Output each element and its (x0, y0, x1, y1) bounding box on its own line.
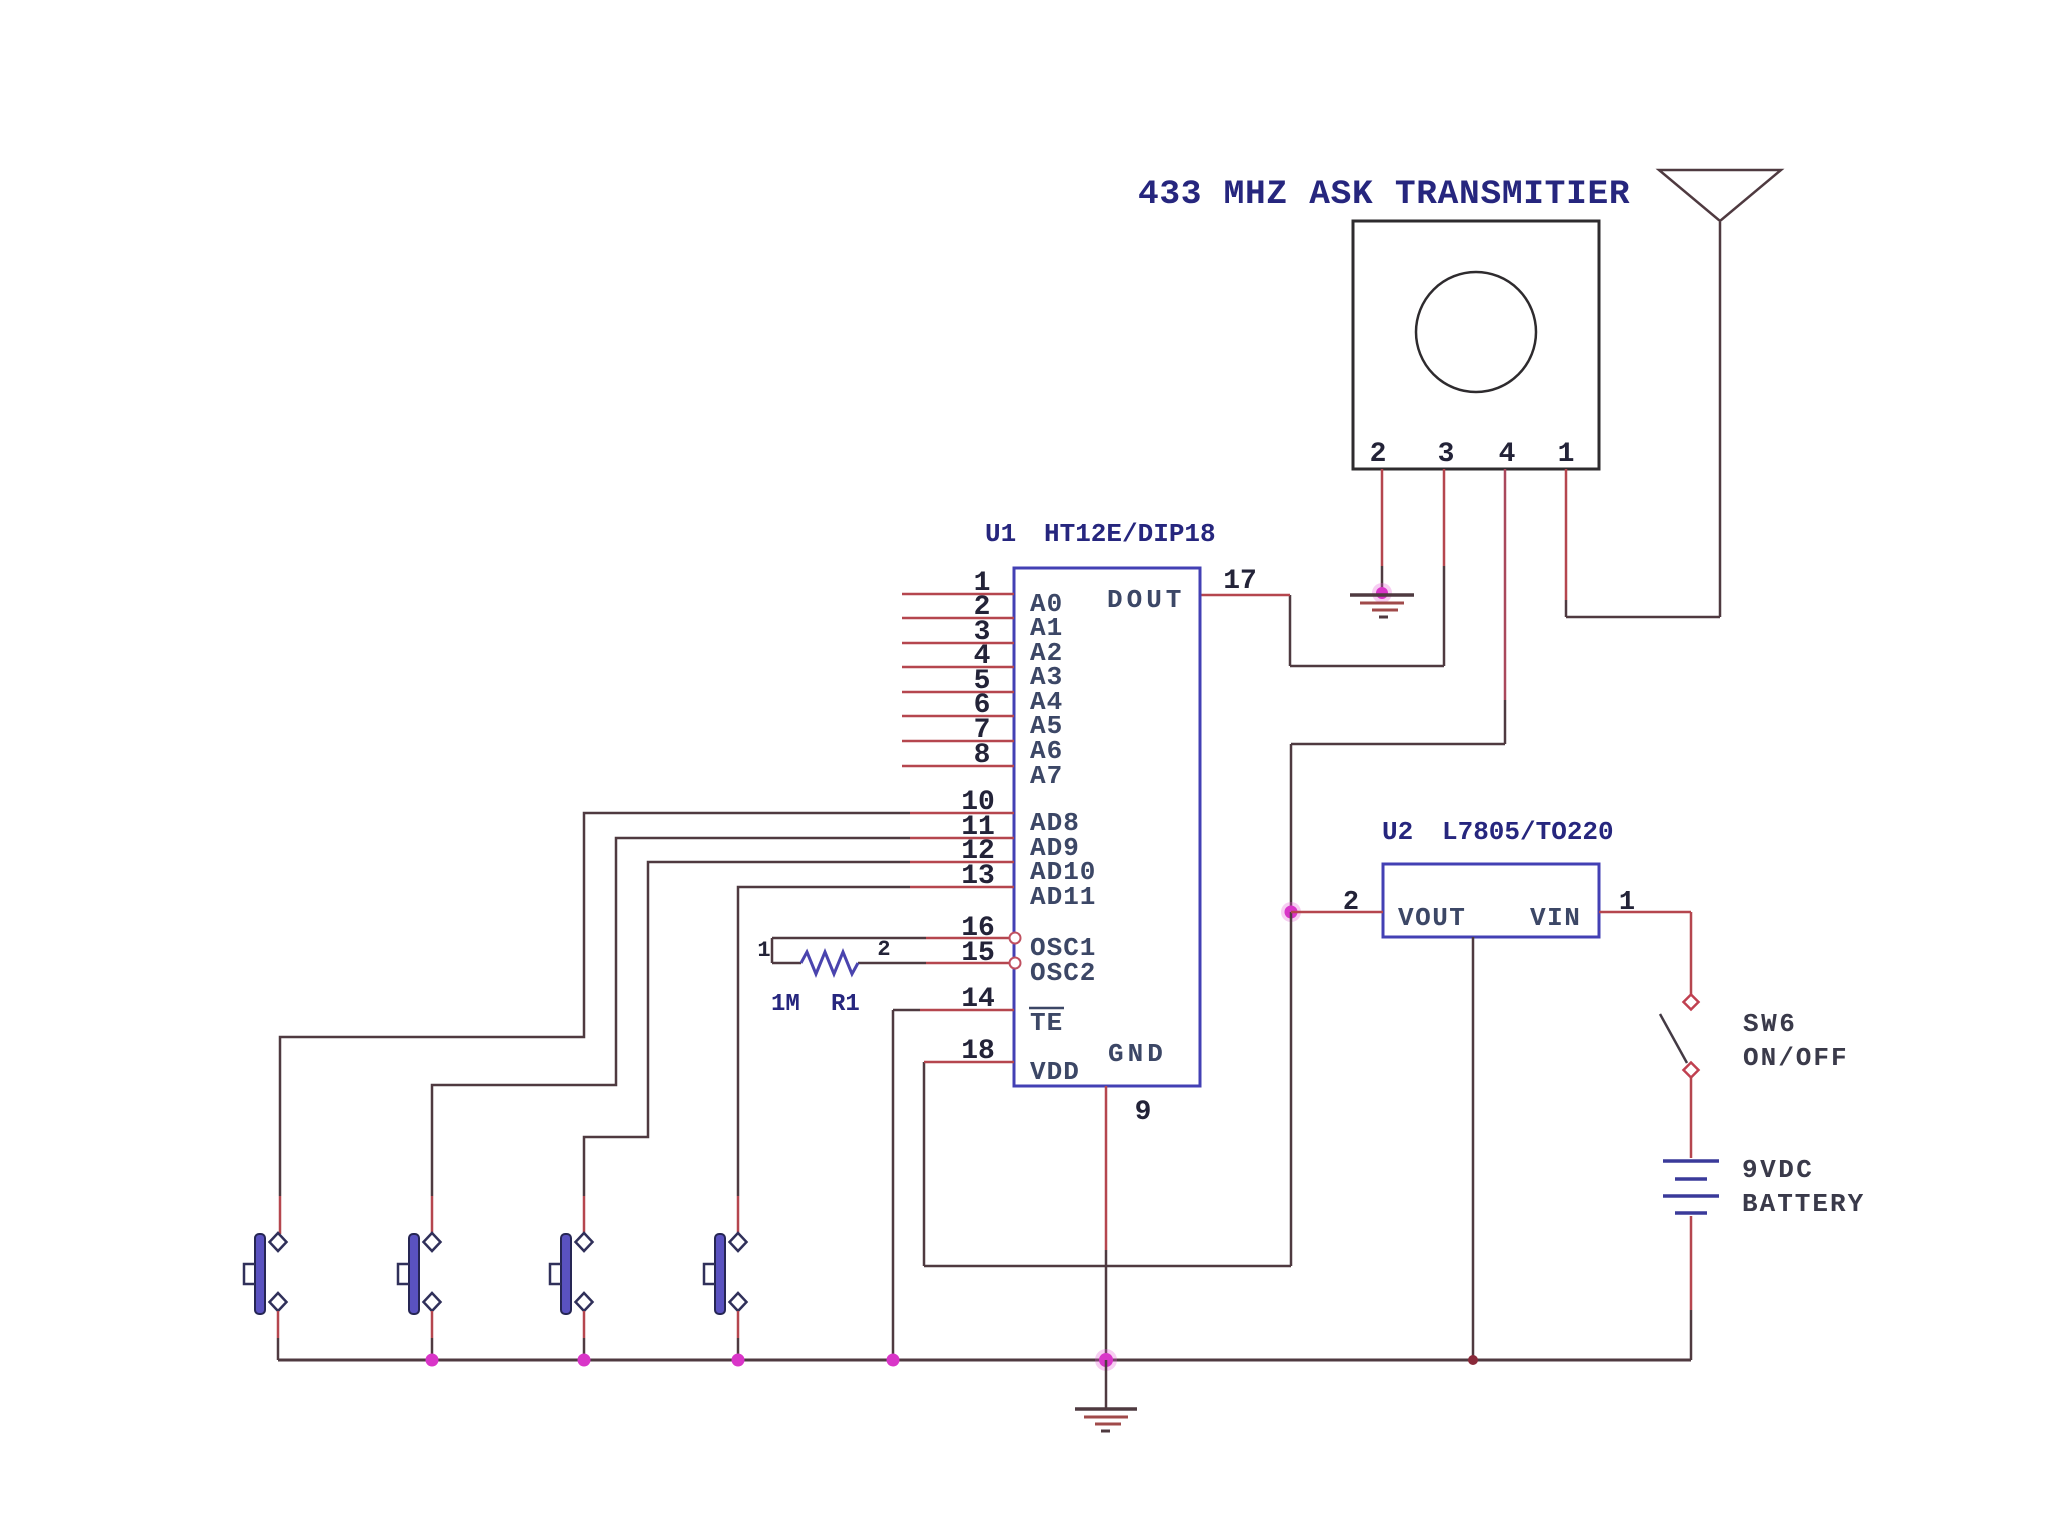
wire OSC2 pin15 (926, 962, 1009, 965)
wire tx pin3 (1443, 469, 1446, 566)
svg-text:GND: GND (1108, 1039, 1167, 1069)
svg-text:BATTERY: BATTERY (1742, 1189, 1865, 1219)
wire pin13 stub (910, 886, 1014, 889)
antenna (1659, 170, 1781, 617)
wire DOUT net (1290, 665, 1444, 668)
svg-text:VOUT: VOUT (1398, 903, 1466, 933)
wire pin6 (902, 715, 1014, 718)
pushbutton 3 (550, 1233, 593, 1360)
node junction button3/bus (578, 1354, 591, 1367)
wire net AD10 to button3 (584, 862, 910, 1196)
svg-text:1: 1 (1558, 439, 1575, 470)
wire pin12 stub (910, 861, 1014, 864)
wire pin10 stub (910, 812, 1014, 815)
node junction button2/bus (426, 1354, 439, 1367)
svg-text:14: 14 (961, 984, 995, 1015)
svg-text:VIN: VIN (1530, 903, 1581, 933)
pushbutton 4 (704, 1233, 747, 1360)
wire pin4 (902, 666, 1014, 669)
svg-text:L7805/TO220: L7805/TO220 (1442, 817, 1614, 847)
svg-text:U2: U2 (1382, 817, 1413, 847)
svg-text:13: 13 (961, 861, 995, 892)
svg-text:TE: TE (1030, 1008, 1063, 1038)
svg-text:AD11: AD11 (1030, 882, 1096, 912)
wire U2 pin1 (1599, 911, 1691, 914)
svg-text:ON/OFF: ON/OFF (1743, 1043, 1849, 1073)
wire pin7 (902, 740, 1014, 743)
resistor R1 zigzag (801, 952, 858, 974)
pushbutton 1 (244, 1233, 287, 1360)
wire tx pin2 (1381, 469, 1384, 566)
svg-text:U1: U1 (985, 519, 1016, 549)
wire U2 ground tab to bus (1472, 937, 1475, 1360)
svg-text:1: 1 (757, 938, 770, 963)
wire net AD8 to button1 (280, 813, 910, 1196)
wire pin3 (902, 642, 1014, 645)
svg-text:OSC2: OSC2 (1030, 958, 1096, 988)
svg-text:1M: 1M (771, 991, 800, 1018)
svg-text:SW6: SW6 (1743, 1009, 1797, 1039)
switch SW6 (1660, 995, 1699, 1078)
svg-text:VDD: VDD (1030, 1057, 1080, 1087)
wire VIN to switch (1690, 912, 1693, 995)
svg-text:15: 15 (961, 938, 995, 969)
wire GND pin9 (1105, 1086, 1108, 1250)
svg-text:18: 18 (961, 1036, 995, 1067)
wire OSC1 pin16 (926, 937, 1009, 940)
ground symbol (main, below bus) (1075, 1360, 1137, 1431)
ground (tx pin2) (1350, 595, 1414, 617)
transmitter TX1 box (1353, 221, 1599, 469)
transmitter pin labels (1370, 439, 1575, 470)
voltage regulator U2 L7805/TO220 (1383, 864, 1599, 937)
svg-text:17: 17 (1223, 566, 1257, 597)
wire net AD9 to button2 (432, 838, 910, 1196)
wire U2 pin2 (1291, 911, 1383, 914)
wire junction down to VDD (1290, 912, 1293, 1266)
node junction button4/bus (732, 1354, 745, 1367)
svg-text:DOUT: DOUT (1107, 585, 1185, 615)
svg-text:R1: R1 (831, 991, 860, 1018)
op-amp U1 HT12E/DIP18 box (1014, 568, 1200, 1086)
svg-text:A7: A7 (1030, 761, 1063, 791)
wire tx pin4 (1504, 469, 1507, 700)
svg-text:3: 3 (1438, 439, 1455, 470)
svg-text:4: 4 (1499, 439, 1516, 470)
U1 pins 10-13 (910, 813, 1014, 887)
node junction GND/bus (1095, 1349, 1117, 1371)
svg-text:9: 9 (1135, 1097, 1152, 1128)
node VCC junction (1281, 902, 1301, 922)
junction (1372, 583, 1392, 603)
bottom ground bus wire (278, 1359, 1691, 1362)
node junction TE/bus (887, 1354, 900, 1367)
wire pin8 (902, 765, 1014, 768)
wire VDD pin18 (924, 1061, 1014, 1064)
wire antenna to pin1 (1566, 616, 1720, 619)
wire pin11 stub (910, 837, 1014, 840)
wire switch to battery (1690, 1077, 1693, 1158)
wire pin1 (902, 593, 1014, 596)
U1 left pins 1-8 (902, 594, 1014, 766)
pin16 bubble (1010, 933, 1021, 944)
wire TE pin14 (920, 1009, 1014, 1012)
battery 9VDC (1663, 1161, 1719, 1213)
pin15 bubble (1010, 958, 1021, 969)
wire tx pin1 (1565, 469, 1568, 600)
wire pin2 (902, 617, 1014, 620)
wire pin5 (902, 691, 1014, 694)
svg-text:9VDC: 9VDC (1742, 1155, 1814, 1185)
svg-text:2: 2 (877, 937, 890, 962)
svg-text:1: 1 (1619, 888, 1635, 918)
node junction U2-tab/bus (1468, 1355, 1478, 1365)
wire battery to bus (1690, 1216, 1693, 1310)
svg-text:HT12E/DIP18: HT12E/DIP18 (1044, 519, 1216, 549)
svg-text:2: 2 (1343, 888, 1359, 918)
wire net AD11 to button4 (738, 887, 910, 1196)
svg-text:8: 8 (974, 740, 991, 771)
pushbutton 2 (398, 1233, 441, 1360)
svg-text:433 MHZ ASK TRANSMITIER: 433 MHZ ASK TRANSMITIER (1138, 175, 1630, 214)
svg-text:2: 2 (1370, 439, 1387, 470)
